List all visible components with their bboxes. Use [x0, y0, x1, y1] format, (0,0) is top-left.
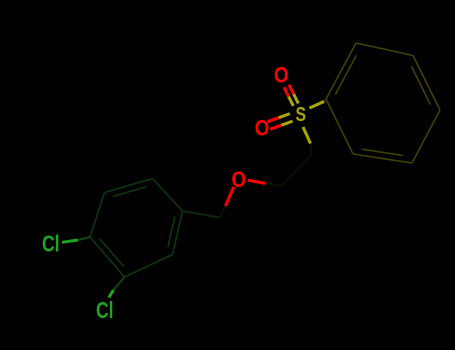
wire ring edge Cl2-BR	[125, 255, 173, 278]
benzene ring (phenyl on sulfonyl)	[326, 43, 440, 163]
wire ring edge Cl1-Cl2	[90, 237, 125, 277]
wire chain CH2b-O dim half	[266, 183, 282, 186]
wire inner double bond TR-TL	[113, 187, 147, 197]
wire ring edge TR-TL	[105, 179, 153, 193]
double bond S=O left line 2	[282, 121, 293, 125]
wire inner double bond A-B	[335, 55, 356, 94]
wire ring edge B-C	[356, 43, 413, 56]
double bond S=O top line 1	[268, 85, 299, 130]
bond Cl2-ring dim half	[114, 277, 125, 290]
wire CH2L-ring dim	[183, 211, 220, 218]
wire ring edge F-A	[326, 99, 353, 154]
wire S-CH2a dim tail	[310, 144, 313, 155]
bond O-CH2b red half	[248, 180, 266, 183]
wire ring edge E-F	[353, 154, 412, 163]
bond Cl2-ring green half	[109, 290, 114, 298]
wire S-phenyl dim tail	[324, 99, 326, 102]
wire inner double bond Cl1-Cl2	[100, 239, 124, 267]
wire inner double bond BR-P4	[168, 216, 175, 246]
svg-text:Cl: Cl	[42, 231, 60, 257]
svg-text:O: O	[231, 167, 246, 192]
bond Cl1-ring dim half	[78, 237, 90, 240]
svg-text:O: O	[274, 63, 289, 88]
wire ring edge C-D	[413, 56, 440, 111]
wire ring edge TL-Cl1	[90, 193, 105, 238]
svg-text:Cl: Cl	[96, 297, 114, 323]
wire ring edge BR-P4	[173, 211, 183, 255]
wire inner double bond C-D	[412, 66, 431, 104]
wire inner double bond E-F	[362, 149, 403, 155]
wire chain CH2a-CH2b (dim)	[282, 155, 312, 186]
bond S-CH2a	[303, 127, 311, 144]
double bond S=O left line 1	[279, 114, 290, 118]
svg-text:O: O	[255, 116, 270, 141]
bond S-phenyl	[310, 102, 325, 109]
double bond S=O top line 2	[289, 97, 294, 106]
wire ring edge A-B	[326, 43, 356, 99]
svg-text:S: S	[296, 104, 307, 126]
wire ring edge D-E	[412, 110, 440, 163]
wire O-CH2L dim half	[220, 206, 226, 218]
bond O-CH2L red half	[226, 187, 234, 206]
dichlorophenyl ring	[90, 179, 183, 278]
wire ring edge P4-TR	[153, 179, 183, 212]
bond Cl1-ring green half	[62, 240, 78, 242]
